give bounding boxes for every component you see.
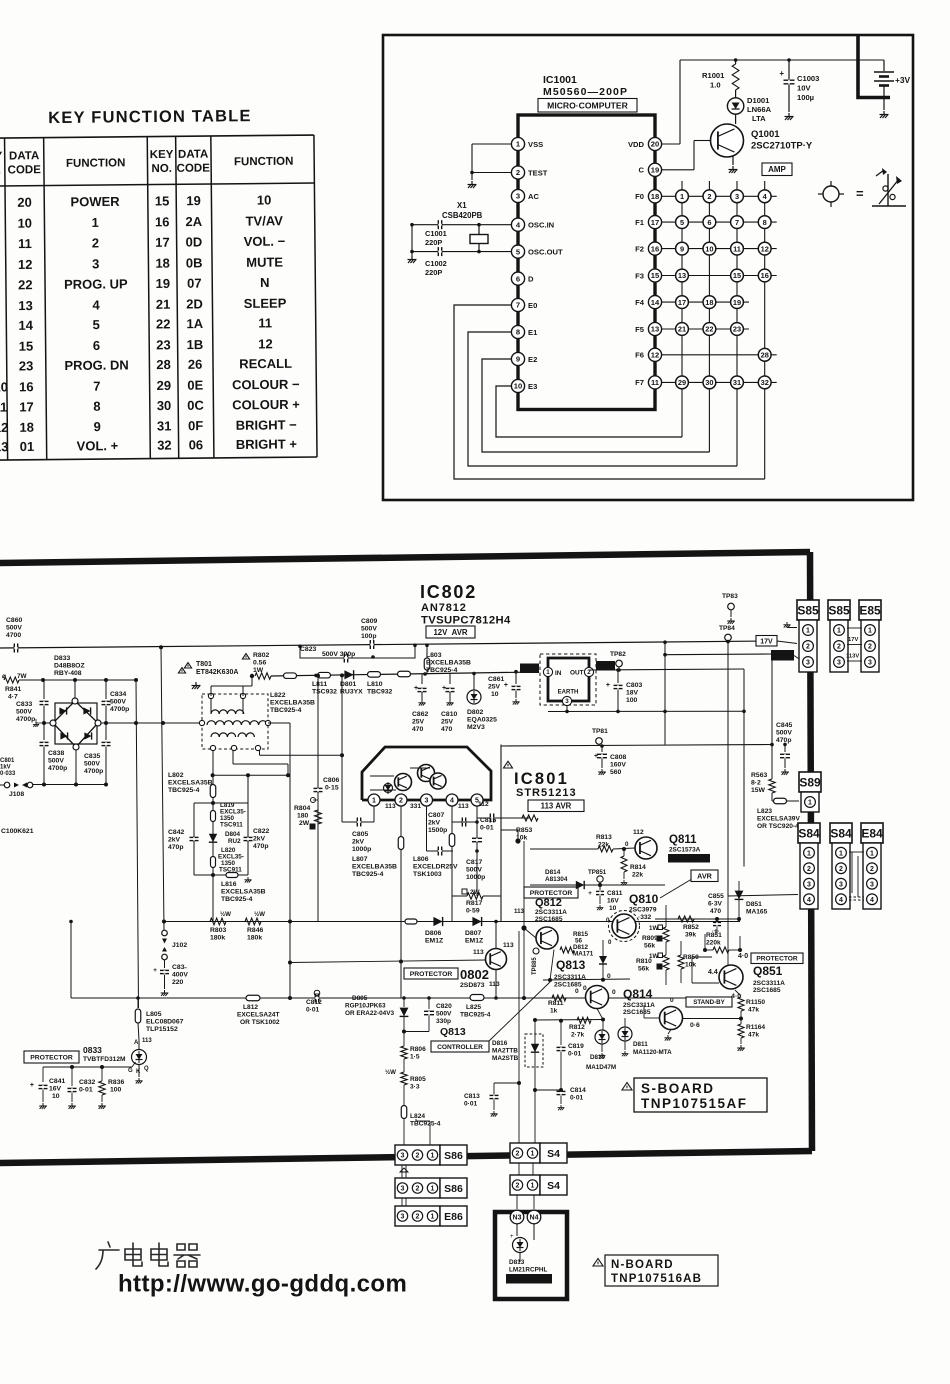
- svg-text:13: 13: [678, 271, 686, 280]
- svg-text:R809: R809: [642, 935, 658, 942]
- svg-text:3: 3: [401, 1214, 405, 1221]
- wire OSC.IN: [412, 224, 511, 226]
- capacitor C819: [557, 1047, 566, 1050]
- svg-text:17: 17: [651, 218, 659, 227]
- svg-text:C838: C838: [48, 750, 64, 757]
- wire 113V rail: [665, 653, 772, 656]
- svg-text:FUNCTION: FUNCTION: [234, 156, 294, 169]
- svg-text:22: 22: [18, 277, 33, 292]
- svg-text:15: 15: [155, 193, 170, 208]
- wire C805 column: [341, 676, 343, 822]
- svg-text:25V: 25V: [488, 684, 501, 691]
- svg-text:22: 22: [705, 325, 713, 334]
- svg-text:13: 13: [18, 298, 33, 313]
- table frame: [0, 135, 314, 138]
- svg-text:+: +: [30, 1082, 34, 1089]
- diode D801: [344, 670, 353, 679]
- svg-text:32: 32: [761, 378, 769, 387]
- svg-text:CSB420PB: CSB420PB: [442, 211, 483, 220]
- svg-text:TBC925-4: TBC925-4: [168, 787, 200, 794]
- svg-text:220: 220: [172, 979, 184, 986]
- wire VDD rail: [662, 143, 680, 145]
- svg-text:L811: L811: [312, 681, 327, 688]
- wire E3 loop: [496, 386, 682, 437]
- connector S4 on border: [510, 1143, 540, 1163]
- svg-text:C835: C835: [84, 753, 100, 760]
- svg-text:1: 1: [531, 1151, 535, 1158]
- wire S86 links: [401, 1165, 403, 1178]
- svg-text:TLP15152: TLP15152: [146, 1026, 178, 1033]
- svg-text:OR TSC920-4: OR TSC920-4: [757, 823, 799, 830]
- capacitor C1003: [788, 60, 790, 79]
- svg-text:56k: 56k: [644, 943, 655, 950]
- svg-text:15: 15: [19, 339, 34, 354]
- svg-text:4: 4: [870, 897, 874, 904]
- svg-text:+: +: [504, 682, 508, 689]
- wire IC801 pin3 drop: [426, 806, 428, 851]
- svg-text:10: 10: [257, 192, 272, 207]
- wire to S86: [403, 1119, 405, 1147]
- svg-text:AC: AC: [528, 192, 539, 201]
- svg-text:2: 2: [707, 192, 711, 201]
- svg-text:56k: 56k: [638, 966, 649, 973]
- svg-text:TBC925-4: TBC925-4: [270, 707, 302, 714]
- 113 AVR box label: [528, 800, 584, 812]
- svg-text:C809: C809: [361, 618, 377, 625]
- wire T801 primary: [210, 698, 212, 710]
- svg-text:E84: E84: [861, 827, 883, 841]
- capacitor C855: [716, 917, 718, 919]
- svg-text:10: 10: [52, 1093, 60, 1100]
- STAND-BY box label: [686, 997, 732, 1007]
- wire 17V drop: [727, 642, 729, 896]
- svg-text:L806: L806: [413, 856, 429, 863]
- svg-text:113: 113: [142, 1038, 152, 1044]
- svg-text:R817: R817: [466, 900, 482, 907]
- svg-text:25V: 25V: [441, 719, 454, 726]
- wire E0 loop: [454, 305, 765, 479]
- svg-text:L805: L805: [146, 1011, 162, 1018]
- resistor R1150: [735, 990, 741, 996]
- svg-text:L807: L807: [352, 856, 368, 863]
- svg-text:+: +: [510, 1234, 514, 1240]
- svg-text:8: 8: [763, 218, 767, 227]
- svg-text:14: 14: [651, 298, 660, 307]
- STAND-BY box label: [506, 1274, 552, 1284]
- svg-text:POWER: POWER: [70, 194, 120, 209]
- svg-text:RBY-408: RBY-408: [54, 670, 82, 677]
- svg-text:0·6: 0·6: [690, 1022, 700, 1029]
- svg-text:Q810: Q810: [629, 892, 659, 906]
- key matrix switches: [676, 190, 689, 203]
- resistor R806: [403, 1040, 405, 1046]
- connector E85: [859, 600, 881, 620]
- svg-text:EQA0325: EQA0325: [467, 717, 497, 724]
- wire bridge top rail: [43, 679, 136, 681]
- svg-text:22k: 22k: [632, 872, 643, 879]
- svg-text:½W: ½W: [254, 911, 265, 918]
- svg-text:TSC932: TSC932: [312, 689, 337, 696]
- board border bottom: [0, 1151, 812, 1163]
- T801 primary coil: [211, 710, 244, 714]
- svg-text:113: 113: [473, 949, 484, 956]
- svg-text:KEY: KEY: [150, 149, 174, 161]
- svg-text:F6: F6: [635, 351, 644, 360]
- svg-text:0: 0: [670, 997, 674, 1004]
- svg-text:OR ERA22-04V3: OR ERA22-04V3: [345, 1010, 394, 1017]
- svg-text:1: 1: [806, 628, 810, 635]
- svg-text:S84: S84: [798, 827, 820, 841]
- svg-text:C812: C812: [306, 999, 322, 1006]
- svg-text:EXCELSA35B: EXCELSA35B: [168, 780, 213, 787]
- svg-text:180k: 180k: [247, 935, 262, 942]
- svg-text:MUTE: MUTE: [246, 255, 283, 270]
- svg-text:20: 20: [17, 195, 32, 210]
- svg-text:4: 4: [92, 297, 100, 312]
- svg-text:100µ: 100µ: [797, 93, 814, 102]
- CONTROLLER box label: [431, 1041, 489, 1052]
- svg-text:3: 3: [401, 1153, 405, 1160]
- wire S4 links: [518, 1163, 520, 1175]
- svg-text:3: 3: [735, 192, 739, 201]
- svg-text:N4: N4: [530, 1215, 539, 1222]
- svg-text:+: +: [588, 890, 592, 897]
- svg-text:2: 2: [416, 1186, 420, 1193]
- wire IC801 pin2 drop: [400, 806, 402, 998]
- svg-text:C100K621: C100K621: [1, 828, 34, 835]
- svg-text:R853: R853: [516, 827, 532, 834]
- svg-text:10: 10: [705, 244, 713, 253]
- wire S84-E84 links: [849, 851, 864, 853]
- transistor Q851: [719, 965, 743, 989]
- svg-text:0·01: 0·01: [79, 1087, 93, 1094]
- svg-text:2SC3979: 2SC3979: [629, 907, 657, 914]
- transformer T801: [184, 663, 191, 668]
- svg-text:6·3V: 6·3V: [708, 901, 723, 908]
- svg-text:R1001: R1001: [702, 71, 725, 80]
- svg-text:560: 560: [610, 769, 622, 776]
- svg-text:C845: C845: [776, 722, 792, 729]
- svg-text:8·2: 8·2: [751, 780, 761, 787]
- wire Q814 collector: [683, 1018, 742, 1020]
- svg-text:R1164: R1164: [746, 1024, 765, 1031]
- svg-text:G: G: [128, 1068, 133, 1074]
- ground: [880, 111, 889, 118]
- svg-text:1A: 1A: [186, 316, 203, 331]
- wire thick supply: [858, 36, 890, 98]
- key function table: [0, 107, 317, 461]
- svg-text:CODE: CODE: [177, 163, 211, 175]
- diode D812: [599, 956, 607, 964]
- svg-text:19: 19: [651, 166, 659, 175]
- svg-text:R841: R841: [5, 686, 21, 693]
- svg-text:500V: 500V: [6, 625, 22, 632]
- ground: [408, 256, 417, 263]
- svg-text:10: 10: [514, 382, 522, 391]
- svg-text:S-BOARD: S-BOARD: [641, 1081, 715, 1096]
- svg-text:DATA: DATA: [178, 149, 208, 161]
- svg-text:16: 16: [761, 271, 769, 280]
- connector E84: [861, 823, 883, 843]
- inductor L810: [368, 672, 381, 678]
- svg-text:DATA: DATA: [9, 150, 39, 162]
- svg-text:0B: 0B: [186, 255, 203, 270]
- capacitor C807: [462, 818, 465, 827]
- svg-text:T801: T801: [196, 661, 212, 668]
- svg-text:PROG. DN: PROG. DN: [64, 357, 128, 373]
- svg-text:R804: R804: [294, 805, 310, 812]
- resistor R804: [311, 798, 316, 803]
- svg-text:EM1Z: EM1Z: [465, 938, 483, 945]
- svg-text:31: 31: [733, 378, 741, 387]
- svg-text:C817: C817: [466, 859, 482, 866]
- svg-text:4700p: 4700p: [16, 716, 35, 723]
- svg-text:113: 113: [458, 803, 469, 810]
- svg-text:KEY FUNCTION TABLE: KEY FUNCTION TABLE: [48, 107, 252, 127]
- capacitor C860: [14, 644, 17, 653]
- svg-text:3: 3: [868, 660, 872, 667]
- svg-text:18: 18: [651, 192, 659, 201]
- svg-text:MA2TTB: MA2TTB: [492, 1048, 518, 1055]
- svg-text:Q814: Q814: [623, 987, 653, 1001]
- wire to S85 pin3: [794, 656, 800, 660]
- svg-text:·332: ·332: [638, 914, 652, 921]
- svg-text:ET842K630A: ET842K630A: [196, 669, 238, 676]
- wire Q814 emitter: [668, 1030, 671, 1035]
- svg-text:L823: L823: [757, 808, 772, 815]
- IC U1001 body: [518, 115, 655, 410]
- svg-text:F3: F3: [635, 271, 644, 280]
- svg-text:2: 2: [837, 644, 841, 651]
- warning triangle: [504, 761, 513, 768]
- svg-text:4700: 4700: [6, 632, 21, 639]
- svg-text:470p: 470p: [253, 843, 269, 850]
- svg-text:S4: S4: [547, 1148, 560, 1160]
- svg-text:TP84: TP84: [719, 625, 735, 632]
- svg-text:Q851: Q851: [753, 964, 783, 978]
- svg-text:470p: 470p: [168, 844, 184, 851]
- svg-text:A81304: A81304: [545, 876, 568, 883]
- svg-text:5: 5: [680, 218, 684, 227]
- capacitor C817: [472, 838, 482, 841]
- svg-text:0·033: 0·033: [0, 771, 16, 777]
- svg-text:C810: C810: [441, 711, 457, 718]
- svg-text:TP885: TP885: [532, 957, 538, 975]
- svg-text:19: 19: [156, 276, 171, 291]
- svg-text:3: 3: [870, 881, 874, 888]
- svg-text:0E: 0E: [187, 378, 203, 393]
- key matrix wires: [681, 181, 683, 437]
- inductor L816: [226, 873, 238, 878]
- svg-text:R810: R810: [636, 958, 652, 965]
- S-BOARD box label: [622, 1083, 632, 1091]
- svg-text:TSK1003: TSK1003: [413, 871, 442, 878]
- inductor L803: [424, 658, 430, 670]
- svg-text:17: 17: [19, 399, 34, 414]
- svg-text:F2: F2: [635, 244, 644, 253]
- svg-text:2: 2: [516, 1151, 520, 1158]
- N-BOARD box label: [593, 1259, 603, 1267]
- svg-text:L802: L802: [168, 772, 184, 779]
- svg-text:C801: C801: [0, 758, 15, 764]
- svg-text:6: 6: [93, 338, 100, 353]
- capacitor C834: [105, 680, 107, 699]
- svg-text:9: 9: [94, 419, 101, 434]
- svg-text:2SC1685: 2SC1685: [623, 1009, 651, 1016]
- svg-text:VOL. −: VOL. −: [244, 234, 286, 249]
- wire IC801 pin1 drop: [373, 806, 375, 822]
- svg-text:Q811: Q811: [669, 834, 697, 846]
- svg-text:TP82: TP82: [610, 651, 626, 658]
- svg-text:32: 32: [157, 438, 172, 453]
- svg-text:180k: 180k: [210, 935, 225, 942]
- capacitor C862: [421, 674, 423, 684]
- wire controller pointer: [489, 982, 550, 1041]
- svg-text:28: 28: [156, 357, 171, 372]
- capacitor C823 branch: [300, 645, 415, 658]
- connector N4: [527, 1210, 541, 1224]
- svg-text:12V: 12V: [600, 663, 612, 670]
- svg-text:1500p: 1500p: [428, 827, 447, 834]
- resistor R836: [101, 1067, 103, 1081]
- AMP box label: [762, 163, 792, 176]
- svg-text:C819: C819: [568, 1043, 584, 1050]
- svg-text:KEY: KEY: [0, 151, 3, 163]
- wire C814 link: [535, 1089, 561, 1091]
- svg-text:14: 14: [18, 318, 33, 333]
- wire E1 loop: [468, 332, 737, 466]
- svg-text:3: 3: [401, 1186, 405, 1193]
- svg-text:D802: D802: [467, 709, 483, 716]
- capacitor C861: [514, 670, 518, 674]
- MICRO COMPUTER box label: [538, 99, 637, 113]
- svg-text:470: 470: [710, 908, 721, 915]
- inductor L805: [135, 1009, 141, 1023]
- svg-text:C860: C860: [6, 617, 22, 624]
- wire Q1001 emitter: [732, 156, 734, 165]
- svg-text:4·0: 4·0: [738, 953, 748, 960]
- legend switch symbol: [872, 205, 906, 207]
- board border right: [810, 552, 812, 1151]
- svg-text:10k: 10k: [685, 962, 696, 969]
- svg-text:E3: E3: [528, 382, 537, 391]
- svg-text:C832: C832: [79, 1079, 95, 1086]
- svg-text:OSC.OUT: OSC.OUT: [528, 247, 563, 256]
- capacitor C838: [40, 742, 49, 745]
- svg-text:IC1001: IC1001: [543, 74, 577, 86]
- transistor Q1001: [735, 114, 737, 124]
- svg-text:11: 11: [0, 400, 7, 415]
- svg-text:OUT: OUT: [570, 670, 584, 677]
- connector S85 on border: [797, 600, 819, 620]
- svg-text:2SC1573A: 2SC1573A: [669, 847, 701, 854]
- svg-text:C806: C806: [323, 777, 339, 784]
- svg-text:½W: ½W: [220, 911, 231, 918]
- svg-text:4700p: 4700p: [110, 706, 129, 713]
- svg-text:S4: S4: [547, 1180, 560, 1192]
- wire IC801 pin4 drop: [451, 806, 453, 922]
- connector S85: [828, 600, 850, 620]
- capacitor C835: [102, 742, 111, 745]
- svg-text:26: 26: [188, 357, 203, 372]
- svg-text:C805: C805: [352, 831, 368, 838]
- connector S84: [830, 823, 852, 843]
- transistor Q811: [635, 837, 657, 859]
- svg-text:500V: 500V: [361, 626, 377, 633]
- wire Q813 emitter: [597, 1009, 603, 1020]
- svg-text:N3: N3: [513, 1215, 522, 1222]
- svg-text:06: 06: [189, 437, 204, 452]
- svg-text:21: 21: [156, 297, 171, 312]
- svg-text:TBC932: TBC932: [367, 689, 393, 696]
- svg-text:15W: 15W: [751, 787, 766, 794]
- svg-text:2: 2: [92, 235, 99, 250]
- svg-text:16V: 16V: [607, 898, 619, 905]
- LED D1001: [735, 90, 737, 98]
- svg-text:STAND·BY: STAND·BY: [674, 856, 704, 862]
- svg-text:0D: 0D: [186, 234, 203, 249]
- svg-text:http://www.go-gddq.com: http://www.go-gddq.com: [118, 1271, 407, 1298]
- svg-text:17V: 17V: [760, 638, 773, 645]
- svg-text:11: 11: [733, 244, 741, 253]
- svg-text:D814: D814: [545, 869, 561, 876]
- svg-text:7: 7: [93, 379, 100, 394]
- connector S84 on border: [798, 823, 820, 843]
- svg-text:112: 112: [478, 801, 489, 808]
- svg-text:113: 113: [514, 908, 525, 915]
- wire Q1001 base: [662, 169, 694, 171]
- wire bridge dc rail: [101, 722, 202, 724]
- diode D804: [209, 834, 217, 842]
- svg-text:TVSUPC7812H4: TVSUPC7812H4: [421, 615, 511, 627]
- svg-text:07: 07: [187, 276, 202, 291]
- wire Q851 net: [691, 957, 693, 983]
- resistor R563: [769, 779, 775, 793]
- ground: [729, 166, 738, 173]
- svg-text:R806: R806: [410, 1046, 426, 1053]
- svg-text:113V: 113V: [846, 654, 859, 660]
- wire OSC.OUT: [412, 251, 511, 253]
- svg-text:VDD: VDD: [628, 140, 645, 149]
- svg-text:LN66A: LN66A: [747, 105, 772, 114]
- svg-text:4: 4: [839, 897, 843, 904]
- svg-text:PROG. UP: PROG. UP: [64, 276, 128, 292]
- svg-text:D811: D811: [633, 1041, 648, 1048]
- svg-text:30: 30: [705, 378, 713, 387]
- svg-text:R802: R802: [253, 652, 269, 659]
- wire L805 drop: [137, 998, 139, 1008]
- wire 17V to S85: [777, 641, 797, 644]
- svg-text:C83˗: C83˗: [172, 964, 187, 971]
- svg-text:20: 20: [651, 140, 659, 149]
- svg-text:1W: 1W: [649, 925, 658, 932]
- svg-text:R803: R803: [210, 927, 226, 934]
- svg-text:C862: C862: [412, 711, 428, 718]
- PROTECTOR box label: [404, 968, 458, 979]
- watermark chinese text: [96, 1242, 200, 1269]
- svg-text:D: D: [528, 274, 534, 283]
- svg-text:23: 23: [733, 325, 741, 334]
- svg-text:S85: S85: [797, 604, 819, 618]
- svg-text:OR TSK1002: OR TSK1002: [240, 1019, 280, 1026]
- svg-text:2: 2: [416, 1153, 420, 1160]
- svg-text:400V: 400V: [172, 972, 188, 979]
- svg-text:1: 1: [808, 800, 812, 807]
- svg-text:28: 28: [761, 350, 769, 359]
- svg-text:N: N: [260, 275, 270, 290]
- svg-text:0: 0: [583, 985, 587, 992]
- svg-text:113: 113: [489, 981, 500, 988]
